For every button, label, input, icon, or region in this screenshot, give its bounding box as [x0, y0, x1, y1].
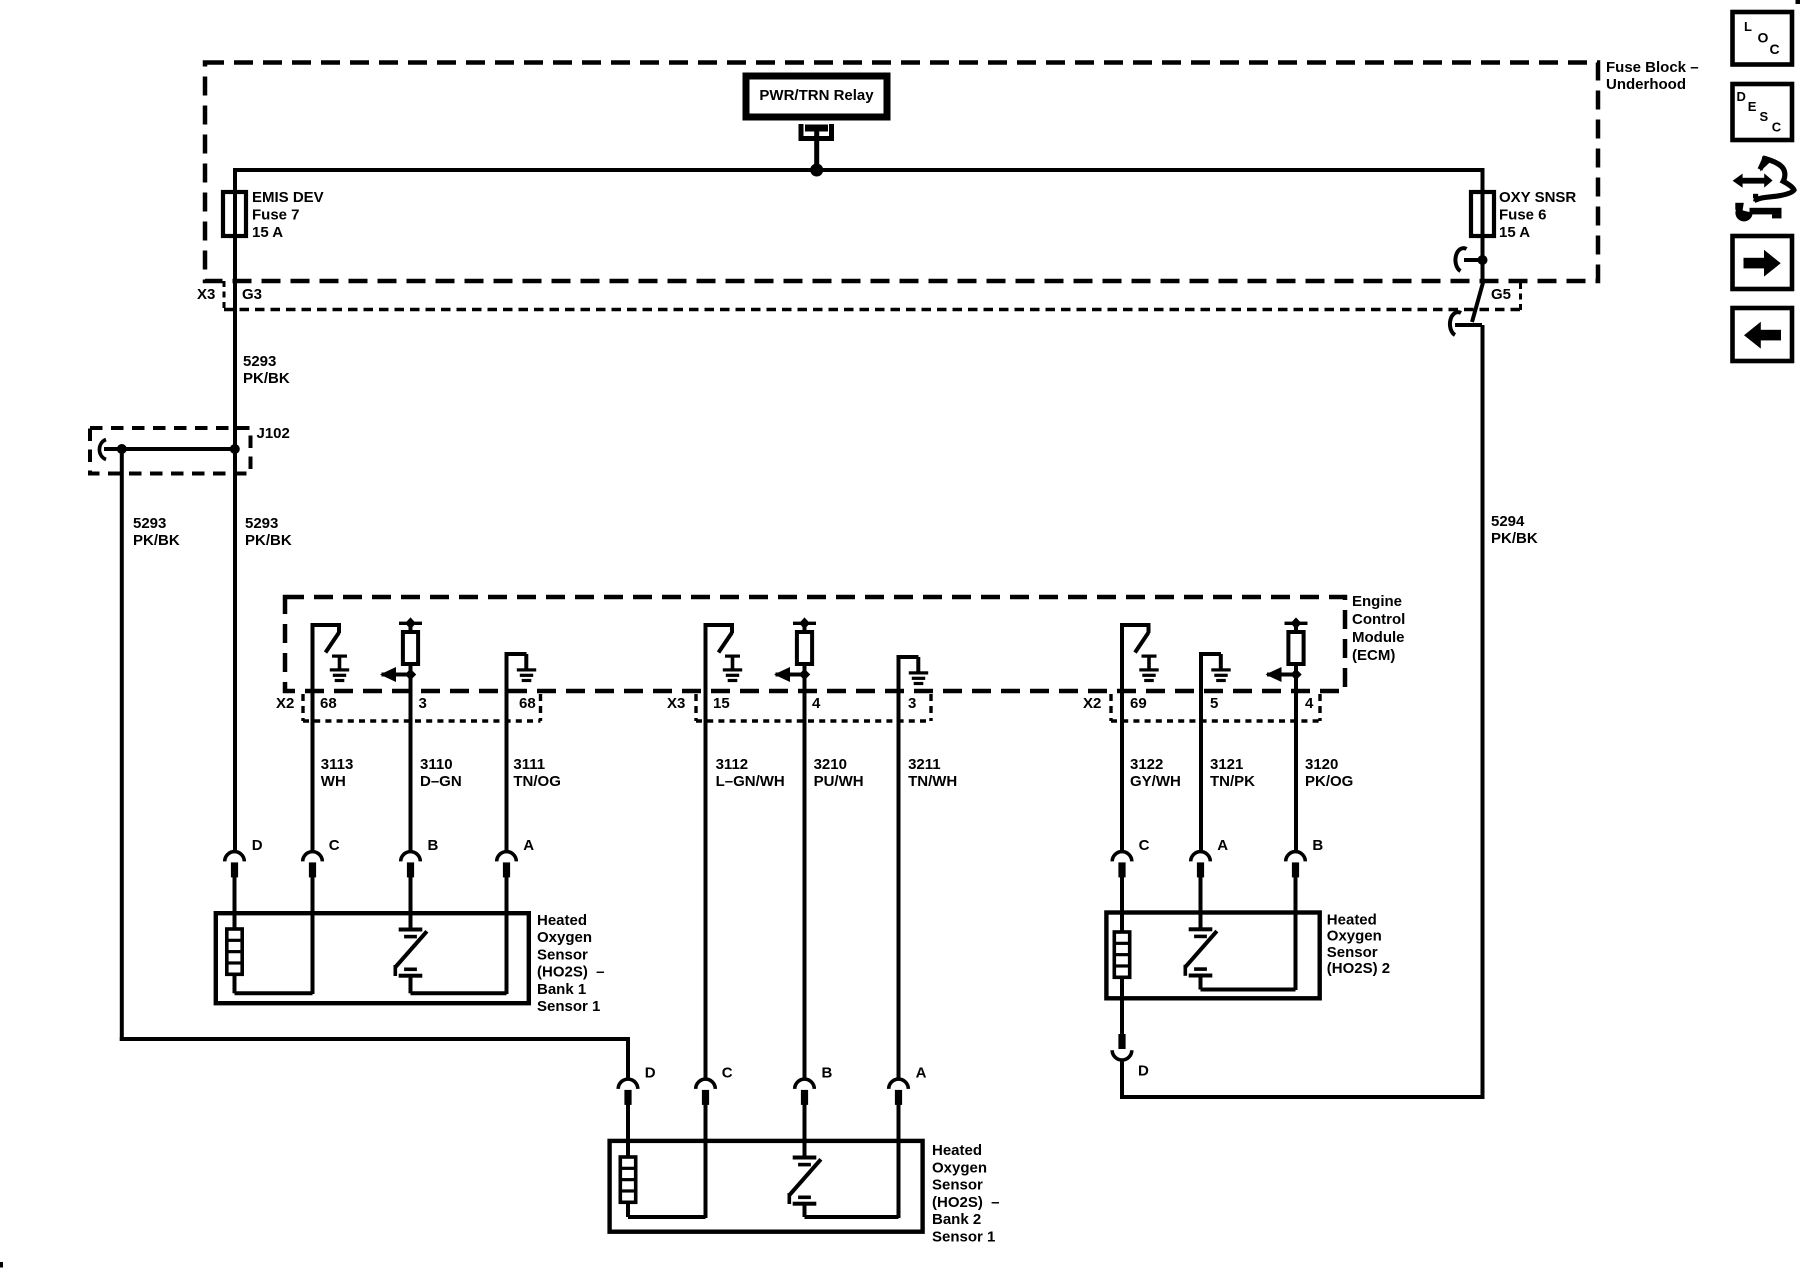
wire 3112 L-GN/WH	[704, 693, 708, 1078]
HO2S 2 box	[1106, 913, 1319, 999]
wire D to feed ho2s2	[1120, 1062, 1124, 1100]
svg-text:Fuse 6: Fuse 6	[1499, 207, 1547, 224]
svg-text:Underhood: Underhood	[1606, 76, 1686, 93]
heater element ho2s2	[1114, 932, 1129, 977]
fuse F6 OXY SNSR 15A	[1471, 192, 1494, 236]
svg-text:G3: G3	[242, 286, 262, 303]
ECM driver: heater low-side switch pin 15	[704, 623, 734, 627]
svg-text:Fuse 7: Fuse 7	[252, 207, 300, 224]
svg-text:5293: 5293	[133, 515, 166, 532]
svg-text:D: D	[1138, 1062, 1149, 1079]
wire 3113 WH	[311, 693, 315, 851]
svg-text:S: S	[1760, 109, 1769, 124]
svg-text:C: C	[1772, 120, 1782, 135]
wire 3122 GY/WH	[1120, 693, 1124, 851]
svg-text:5294: 5294	[1491, 513, 1525, 530]
svg-text:B: B	[1312, 837, 1323, 854]
svg-text:3210: 3210	[814, 756, 847, 773]
svg-text:Heated: Heated	[537, 912, 587, 929]
wire heater to D ho2s2	[1120, 976, 1124, 1034]
connector terminal D (HO2S bank1)	[225, 852, 245, 862]
svg-text:Sensor: Sensor	[1327, 944, 1378, 961]
wire D pigtail b2s1	[626, 1105, 630, 1159]
svg-text:G5: G5	[1491, 286, 1511, 303]
svg-text:Fuse Block –: Fuse Block –	[1606, 59, 1699, 76]
svg-text:3: 3	[908, 695, 916, 712]
svg-text:TN/WH: TN/WH	[908, 773, 957, 790]
svg-text:B: B	[822, 1065, 833, 1082]
connector terminal B (HO2S bank1)	[401, 852, 421, 862]
svg-text:D: D	[645, 1065, 656, 1082]
wire 3111 TN/OG	[505, 693, 509, 851]
connector terminal D (HO2S bank2)	[618, 1079, 638, 1089]
connector terminal B (HO2S 2)	[1286, 852, 1306, 862]
svg-text:A: A	[523, 837, 534, 854]
svg-text:15 A: 15 A	[1499, 224, 1530, 241]
svg-text:OXY SNSR: OXY SNSR	[1499, 189, 1576, 206]
svg-text:PK/BK: PK/BK	[245, 532, 292, 549]
svg-text:Sensor: Sensor	[537, 946, 588, 963]
connector terminal A (HO2S 2)	[1191, 852, 1211, 862]
svg-text:PK/BK: PK/BK	[133, 532, 180, 549]
svg-text:PK/OG: PK/OG	[1305, 773, 1353, 790]
svg-text:68: 68	[320, 695, 337, 712]
ECM connector band X2	[1111, 719, 1320, 723]
wire C pigtail ho2s2	[1120, 877, 1124, 933]
wire B+ feed bus	[233, 168, 1485, 172]
ECM internal ground pin 68	[505, 652, 527, 656]
connector terminal B (HO2S bank2)	[795, 1079, 815, 1089]
svg-text:C: C	[1139, 837, 1150, 854]
ECM dashed outline	[285, 597, 1345, 691]
svg-text:3: 3	[419, 695, 427, 712]
zirconia sensor cell b2s1	[793, 1156, 817, 1160]
svg-text:EMIS DEV: EMIS DEV	[252, 189, 324, 206]
svg-text:5: 5	[1210, 695, 1218, 712]
relay K1 PWR/TRN Relay (box)	[746, 76, 887, 117]
connector terminal A (HO2S bank1)	[497, 852, 517, 862]
svg-text:Sensor 1: Sensor 1	[537, 998, 600, 1015]
ECM connector band X3	[696, 719, 931, 723]
svg-text:Bank 2: Bank 2	[932, 1211, 981, 1228]
svg-text:C: C	[329, 837, 340, 854]
svg-text:5293: 5293	[245, 515, 278, 532]
svg-text:PK/BK: PK/BK	[1491, 530, 1538, 547]
ECM internal resistor to B+ pin 3	[399, 622, 422, 625]
HO2S bank2 sensor1 box	[610, 1141, 923, 1232]
svg-text:C: C	[1770, 41, 1780, 57]
zirconia sensor cell ho2s2	[1189, 927, 1213, 931]
fuse block - underhood (dashed outline)	[205, 63, 1598, 282]
svg-text:4: 4	[812, 695, 821, 712]
svg-text:15: 15	[713, 695, 730, 712]
svg-text:69: 69	[1130, 695, 1147, 712]
svg-text:3211: 3211	[908, 756, 941, 773]
junction dot fuse 6 terminal	[1478, 255, 1488, 265]
wire from fuse 7 down through connector G3	[233, 168, 237, 851]
svg-text:J102: J102	[257, 425, 290, 442]
svg-text:3111: 3111	[513, 756, 545, 773]
ECM internal ground pin 3	[897, 655, 919, 659]
HO2S bank1 sensor1 box	[216, 913, 529, 1003]
wire bottom run to HO2S bank2 D	[120, 1037, 628, 1041]
connector terminal C (HO2S bank1)	[303, 852, 323, 862]
connector terminal D (HO2S 2, flipped)	[1112, 1050, 1132, 1060]
ECM driver: heater low-side switch pin 69	[1121, 623, 1151, 627]
svg-text:Oxygen: Oxygen	[932, 1159, 987, 1176]
ECM connector band X2	[303, 719, 541, 723]
connector terminal C (HO2S 2)	[1112, 852, 1132, 862]
svg-text:5293: 5293	[243, 353, 276, 370]
wire drop to bank2 connector D	[626, 1037, 630, 1078]
svg-text:A: A	[1217, 837, 1228, 854]
svg-text:C: C	[722, 1065, 733, 1082]
svg-text:Oxygen: Oxygen	[537, 929, 592, 946]
wire 3210 PU/WH	[803, 693, 807, 1078]
svg-text:Heated: Heated	[1327, 912, 1377, 929]
connector band separator right of G5	[1519, 283, 1522, 310]
fuse F7 EMIS DEV 15A	[223, 192, 246, 236]
wire splice jumper J102	[104, 447, 236, 451]
connector terminal A (HO2S bank2)	[889, 1079, 909, 1089]
terminal hook lower at G5	[1455, 323, 1482, 327]
svg-text:D–GN: D–GN	[420, 773, 462, 790]
wire sensor return b1s1	[409, 977, 413, 993]
wire A pigtail b1s1	[505, 877, 509, 994]
junction dot J102 right	[230, 444, 240, 454]
ECM internal ground pin 5	[1200, 652, 1222, 656]
wire heater return b1s1	[233, 973, 237, 993]
svg-text:L–GN/WH: L–GN/WH	[716, 773, 785, 790]
svg-text:D: D	[252, 837, 263, 854]
svg-text:WH: WH	[321, 773, 346, 790]
wire A pigtail b2s1	[897, 1105, 901, 1219]
sidebar icon back arrow	[1733, 308, 1793, 361]
svg-text:3122: 3122	[1130, 756, 1163, 773]
svg-text:Sensor: Sensor	[932, 1177, 983, 1194]
ECM internal resistor to B+ pin 4	[1285, 622, 1308, 625]
wire B pigtail b2s1	[803, 1105, 807, 1157]
junction dot J102 left	[117, 444, 127, 454]
connector band separator left	[223, 281, 226, 310]
svg-text:PK/BK: PK/BK	[243, 370, 290, 387]
wire sensor return ho2s2	[1199, 977, 1203, 990]
svg-text:3112: 3112	[716, 756, 749, 773]
svg-text:3121: 3121	[1210, 756, 1243, 773]
svg-text:68: 68	[519, 695, 536, 712]
wire from J102 down to HO2S bank1 D	[233, 449, 237, 851]
svg-text:GY/WH: GY/WH	[1130, 773, 1181, 790]
svg-text:E: E	[1748, 99, 1757, 114]
svg-text:Engine: Engine	[1352, 593, 1402, 610]
svg-text:O: O	[1758, 30, 1769, 46]
splice hook J102	[99, 440, 106, 460]
wire C pigtail b2s1	[704, 1105, 708, 1219]
wire bottom feed run ho2s2	[1120, 1095, 1485, 1099]
terminal hook upper at G5	[1464, 258, 1482, 262]
wire C pigtail b1s1	[311, 877, 315, 994]
svg-text:(ECM): (ECM)	[1352, 647, 1395, 664]
sidebar icon forward arrow	[1733, 236, 1793, 289]
zirconia sensor cell b1s1	[399, 928, 423, 932]
wire B pigtail ho2s2	[1294, 877, 1298, 990]
svg-text:(HO2S) –: (HO2S) –	[537, 964, 605, 981]
svg-text:Sensor 1: Sensor 1	[932, 1229, 995, 1246]
svg-text:X3: X3	[197, 286, 215, 303]
svg-text:3113: 3113	[321, 756, 354, 773]
terminal pass-through diagonal at G5	[1472, 279, 1484, 322]
wire heater return b2s1	[626, 1201, 630, 1217]
svg-text:PWR/TRN Relay: PWR/TRN Relay	[759, 87, 874, 104]
svg-text:3120: 3120	[1305, 756, 1338, 773]
svg-text:TN/OG: TN/OG	[513, 773, 561, 790]
svg-text:X2: X2	[276, 695, 294, 712]
svg-text:PU/WH: PU/WH	[814, 773, 864, 790]
sidebar icon schematic-reference (arrows and wrench)	[1742, 178, 1766, 184]
ECM driver: heater low-side switch pin 68	[311, 623, 341, 627]
wire from fuse 6 to splice dot	[1481, 168, 1485, 281]
svg-text:3110: 3110	[420, 756, 453, 773]
svg-text:Control: Control	[1352, 611, 1405, 628]
wire A pigtail ho2s2	[1199, 877, 1203, 929]
svg-text:Heated: Heated	[932, 1142, 982, 1159]
svg-text:Module: Module	[1352, 629, 1405, 646]
connector terminal C (HO2S bank2)	[696, 1079, 716, 1089]
svg-text:(HO2S) –: (HO2S) –	[932, 1194, 1000, 1211]
svg-text:Bank 1: Bank 1	[537, 981, 586, 998]
svg-text:X2: X2	[1083, 695, 1101, 712]
heater element b1s1	[227, 929, 242, 974]
svg-text:B: B	[428, 837, 439, 854]
wire sensor return b2s1	[803, 1205, 807, 1217]
heater element b2s1	[620, 1157, 635, 1202]
svg-text:A: A	[916, 1065, 927, 1082]
svg-text:D: D	[1737, 89, 1746, 104]
splice J102 (dashed box)	[90, 428, 251, 474]
svg-text:15 A: 15 A	[252, 224, 283, 241]
wire 3120 PK/OG	[1294, 693, 1298, 851]
relay output terminal	[801, 124, 832, 139]
wire B pigtail b1s1	[409, 877, 413, 929]
wire 3211 TN/WH	[897, 693, 901, 1078]
wire 3121 TN/PK	[1199, 693, 1203, 851]
svg-text:4: 4	[1305, 695, 1314, 712]
page corner mark bottom left	[0, 1262, 3, 1268]
ECM internal resistor to B+ pin 4	[793, 622, 816, 625]
sidebar icon LOC	[1733, 12, 1793, 65]
svg-text:Oxygen: Oxygen	[1327, 928, 1382, 945]
connector band G3/G5 bottom edge	[224, 308, 1521, 311]
junction dot under relay	[810, 164, 823, 177]
svg-text:TN/PK: TN/PK	[1210, 773, 1255, 790]
svg-text:L: L	[1744, 19, 1752, 34]
sidebar icon DESC	[1733, 84, 1793, 140]
wire left branch from J102 down	[120, 449, 124, 1041]
svg-text:(HO2S) 2: (HO2S) 2	[1327, 960, 1390, 977]
wire D pigtail b1s1	[233, 877, 237, 930]
page corner mark top right	[1796, 0, 1800, 4]
wire 3110 D-GN	[409, 693, 413, 851]
svg-text:X3: X3	[667, 695, 685, 712]
wire 5294 PK/BK right side down	[1481, 325, 1485, 1099]
